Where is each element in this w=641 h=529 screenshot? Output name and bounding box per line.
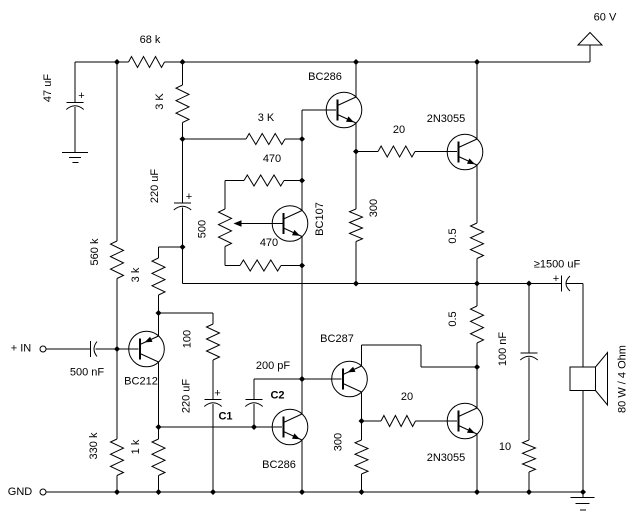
junction feedback node [180,244,186,250]
svg-text:C1: C1 [218,411,232,423]
wire C2 top [253,379,255,400]
junction gnd x302 [299,489,305,495]
capacitor 220uF upper [174,202,191,204]
svg-text:300: 300 [333,433,345,451]
junction top rail x477 [474,59,480,65]
transistor 2N3055 top [447,134,483,170]
wire left rail lower [116,476,118,493]
svg-text:500 nF: 500 nF [70,367,105,379]
svg-text:+ IN: + IN [11,343,32,355]
wire 1k bottom lead [158,476,160,493]
wire 470a left lead [225,180,244,182]
wire pot bottom link [224,247,226,266]
resistor 10 [523,440,536,472]
resistor 3K vertical [176,85,189,123]
capacitor 500nF input [90,341,92,357]
terminal input [40,346,46,352]
wire 220uF bottom lead [182,208,184,248]
wire 20 bottom right lead [416,420,458,422]
potentiometer 500 wiper arrow [240,223,284,225]
svg-text:100: 100 [182,330,194,348]
wire output to speaker corner [566,283,583,285]
junction BC286b collector node [299,376,305,382]
resistor 68k horizontal [129,57,165,68]
resistor 3K horizontal [246,134,285,145]
power +60V arrow [578,33,602,46]
transistor BC212 [129,331,165,367]
svg-text:300: 300 [368,199,380,217]
wire input lead [46,348,91,350]
svg-text:+: + [214,388,220,400]
junction collector node [156,424,162,430]
wire top supply rail y=62 [75,61,129,63]
junction gnd x477 [474,489,480,495]
junction output rail x477 [474,281,480,287]
capacitor 47uF [66,102,83,104]
svg-text:3 K: 3 K [154,93,166,110]
capacitor 100nF [520,352,537,354]
wire BC212 base [117,348,139,350]
wire output rail [183,283,562,285]
capacitor C2 200pF [245,399,262,401]
junction x302 3K [299,136,305,142]
wire 100 top lead [212,313,214,324]
junction VAS base node [299,376,305,382]
wire 2N3055b emitter [476,434,478,492]
wire 470a right lead [284,180,302,182]
junction lower output device node [474,364,480,370]
svg-text:220 uF: 220 uF [181,379,193,414]
resistor 0.5 lower [471,306,484,343]
transistor 2N3055 bottom [447,403,483,439]
junction output rail x529 [526,281,532,287]
ground left [62,152,88,154]
wire 100 to C1 [212,360,214,400]
svg-text:BC286: BC286 [308,71,342,83]
svg-text:60 V: 60 V [594,12,617,24]
svg-text:0.5: 0.5 [447,228,459,243]
svg-text:+: + [186,191,192,203]
ground right [582,492,584,498]
wire 47uF top lead [74,62,76,103]
svg-text:3 K: 3 K [258,112,275,124]
capacitor C1 220uF [204,399,221,401]
junction driver bottom node [359,418,365,424]
junction gnd x529 [526,489,532,495]
wire 3K horiz right lead [285,138,302,140]
junction emitter node [156,310,162,316]
wire BC286 top base [302,109,336,111]
terminal gnd [40,489,46,495]
wire pot top link [224,181,226,210]
wire collector to BC286b base [159,426,283,428]
transistor BC286 bottom [272,409,308,445]
junction gnd x158 [156,489,162,495]
junction top rail x117 [114,59,120,65]
svg-text:470: 470 [260,237,278,249]
svg-text:GND: GND [8,486,33,498]
wire 20 bottom left lead [362,420,382,422]
wire 2N3055b collector [476,367,478,408]
svg-text:80 W / 4 Ohm: 80 W / 4 Ohm [617,345,629,413]
wire 0.5 upper bottom lead [476,259,478,284]
transistor BC107 [272,206,308,242]
svg-text:BC107: BC107 [314,202,326,236]
junction top rail x356 [353,59,359,65]
junction 3K bottom node [180,136,186,142]
junction x302 470 lower [299,263,305,269]
svg-text:3 k: 3 k [130,267,142,282]
wire 3K horiz left lead [183,138,247,140]
wire top rail middle [183,61,591,63]
wire VAS rail mid [301,237,303,415]
svg-text:20: 20 [393,124,405,136]
svg-text:0.5: 0.5 [447,311,459,326]
wire 2N3055t collector [476,62,478,139]
wire 220uF top lead [182,139,184,203]
wire BC287 emitter path [361,345,363,366]
wire 470b right lead [281,265,302,267]
wire 300 lower bottom lead [361,474,363,492]
junction gnd x361 [359,489,365,495]
wire 60V riser [589,45,591,62]
junction top rail x182 [180,59,186,65]
wire left rail upper [116,62,118,241]
svg-text:500: 500 [197,220,209,238]
svg-text:100 nF: 100 nF [497,332,509,367]
wire emitter node to 100 [159,312,214,314]
svg-text:BC286: BC286 [262,459,296,471]
svg-text:2N3055: 2N3055 [427,452,466,464]
wire 470b left lead [225,265,240,267]
wire VAS rail lower [301,440,303,492]
wire zobel mid [528,358,530,441]
svg-text:47 uF: 47 uF [42,74,54,102]
svg-text:470: 470 [263,153,281,165]
resistor 1k [152,439,165,476]
svg-text:200 pF: 200 pF [256,360,291,372]
wire 0.5 lower bottom lead [476,343,478,367]
wire 3K top lead [182,62,184,85]
svg-text:1 k: 1 k [130,439,142,454]
capacitor 1500uF output [561,276,563,292]
wire 20 top right lead [415,151,457,153]
svg-text:560 k: 560 k [89,238,101,265]
resistor 100 [207,324,220,360]
wire BC287 collector [361,392,363,421]
svg-text:10: 10 [499,441,511,453]
wire 20 top left lead [356,151,378,153]
wire output rail drop [182,247,184,284]
wire zobel top lead [528,284,530,354]
wire VAS rail upper [301,110,303,211]
resistor 1k leads [158,427,160,439]
wire C2 bottom [253,404,255,427]
svg-text:220 uF: 220 uF [149,169,161,204]
wire cap to base node [96,348,118,350]
wire zobel bottom lead [528,472,530,492]
resistor 560k [111,241,124,279]
wire ground rail [46,491,583,493]
wire C2 to VAS rail [254,378,302,380]
wire 47uF to ground [74,107,76,153]
junction driver top node [353,149,359,155]
wire BC286t emitter [355,123,357,152]
wire 0.5 lower top lead [476,284,478,307]
wire BC212 collector [158,362,160,427]
resistor 0.5 upper [471,223,484,259]
wire speaker to ground [582,391,584,493]
wire 3K bottom lead [182,123,184,140]
junction x302 470 upper [299,178,305,184]
wire left rail mid [116,279,118,440]
transistor BC286 top [326,92,362,128]
svg-text:2N3055: 2N3055 [427,113,466,125]
resistor 20 lower [381,416,416,427]
wire BC212 emitter [158,313,160,336]
wire 3k to emitter node [158,295,160,313]
speaker 80W [570,367,596,391]
svg-text:BC287: BC287 [320,333,354,345]
transistor BC287 [332,361,368,397]
resistor 330k [111,439,124,476]
wire feedback jog [159,246,183,248]
svg-text:20: 20 [401,391,413,403]
svg-text:C2: C2 [270,390,284,402]
resistor 470 upper [244,175,284,186]
resistor 300 upper [350,209,363,242]
resistor 20 upper [378,146,415,157]
junction gnd x213 [210,489,216,495]
svg-text:+: + [78,90,84,102]
svg-text:+: + [553,273,559,285]
wire 2N3055t emitter [476,165,478,223]
resistor 300 lower [355,440,368,474]
wire 300 upper bottom lead [355,242,357,284]
svg-text:330 k: 330 k [88,432,100,459]
resistor 470 lower [240,260,281,271]
svg-text:≥1500 uF: ≥1500 uF [534,259,581,271]
wire 300 lower top lead [361,421,363,440]
junction gnd x117 [114,489,120,495]
wire BC287 base [302,378,342,380]
svg-text:BC212: BC212 [124,376,158,388]
wire C1 to ground rail [212,404,214,492]
potentiometer 500 track [219,209,232,247]
svg-text:68 k: 68 k [140,34,161,46]
junction gnd x583 [580,489,586,495]
resistor 300 upper leads [355,152,357,210]
wire BC286t collector [355,62,357,97]
junction C2 bottom node [251,424,257,430]
resistor 3k feedback [152,258,165,295]
junction output rail x356 [353,281,359,287]
junction input node [114,346,120,352]
